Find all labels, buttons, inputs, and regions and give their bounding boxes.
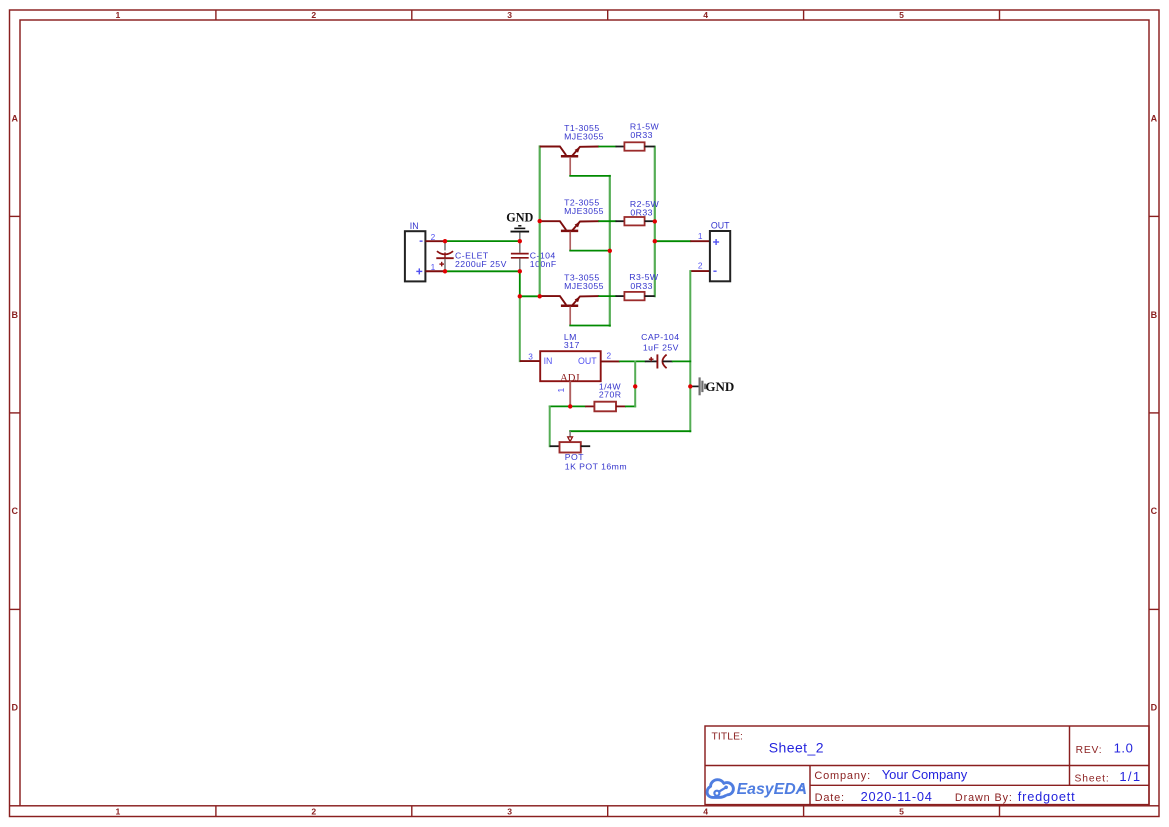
svg-text:2: 2 bbox=[431, 232, 436, 242]
svg-text:1K POT 16mm: 1K POT 16mm bbox=[565, 461, 627, 471]
svg-text:3: 3 bbox=[507, 10, 512, 20]
svg-text:100nF: 100nF bbox=[530, 259, 557, 269]
svg-text:C: C bbox=[1151, 506, 1158, 516]
svg-text:2: 2 bbox=[606, 351, 611, 361]
svg-text:5: 5 bbox=[899, 10, 904, 20]
svg-text:ADJ: ADJ bbox=[560, 373, 579, 384]
svg-text:0R33: 0R33 bbox=[630, 130, 653, 140]
svg-text:3: 3 bbox=[507, 806, 512, 816]
svg-text:4: 4 bbox=[703, 806, 708, 816]
svg-text:GND: GND bbox=[506, 211, 533, 225]
svg-text:D: D bbox=[11, 703, 18, 713]
svg-text:0R33: 0R33 bbox=[630, 281, 653, 291]
svg-text:MJE3055: MJE3055 bbox=[564, 206, 604, 216]
svg-text:2: 2 bbox=[311, 10, 316, 20]
svg-text:A: A bbox=[1151, 113, 1158, 123]
svg-text:MJE3055: MJE3055 bbox=[564, 281, 604, 291]
svg-text:OUT: OUT bbox=[711, 221, 730, 231]
svg-text:C: C bbox=[11, 506, 18, 516]
svg-text:A: A bbox=[11, 113, 18, 123]
svg-text:GND: GND bbox=[705, 379, 734, 394]
svg-text:3: 3 bbox=[528, 351, 533, 361]
svg-text:1: 1 bbox=[116, 806, 121, 816]
svg-text:D: D bbox=[1151, 703, 1158, 713]
svg-text:IN: IN bbox=[544, 356, 553, 366]
svg-text:1uF 25V: 1uF 25V bbox=[643, 343, 679, 353]
svg-text:IN: IN bbox=[410, 221, 419, 231]
svg-text:317: 317 bbox=[564, 340, 580, 350]
svg-text:2020-11-04: 2020-11-04 bbox=[861, 789, 933, 804]
svg-text:Your Company: Your Company bbox=[882, 767, 968, 782]
svg-text:B: B bbox=[1151, 310, 1158, 320]
svg-text:B: B bbox=[11, 310, 18, 320]
svg-text:5: 5 bbox=[899, 806, 904, 816]
svg-text:CAP-104: CAP-104 bbox=[641, 332, 679, 342]
svg-text:OUT: OUT bbox=[578, 356, 597, 366]
svg-text:Sheet:: Sheet: bbox=[1075, 773, 1110, 784]
svg-text:270R: 270R bbox=[599, 389, 622, 399]
svg-text:1: 1 bbox=[698, 231, 703, 241]
svg-text:Company:: Company: bbox=[814, 770, 871, 782]
svg-text:2: 2 bbox=[311, 806, 316, 816]
svg-text:1: 1 bbox=[431, 262, 436, 272]
svg-text:Drawn By:: Drawn By: bbox=[955, 792, 1013, 804]
svg-text:Date:: Date: bbox=[815, 792, 845, 804]
svg-text:1.0: 1.0 bbox=[1114, 741, 1134, 756]
svg-text:1/1: 1/1 bbox=[1119, 769, 1141, 784]
svg-text:MJE3055: MJE3055 bbox=[564, 132, 604, 142]
svg-text:4: 4 bbox=[703, 10, 708, 20]
svg-text:2200uF 25V: 2200uF 25V bbox=[455, 259, 507, 269]
svg-text:TITLE:: TITLE: bbox=[712, 731, 744, 742]
svg-text:REV:: REV: bbox=[1076, 745, 1103, 756]
svg-text:1: 1 bbox=[116, 10, 121, 20]
svg-text:0R33: 0R33 bbox=[630, 208, 653, 218]
svg-text:Sheet_2: Sheet_2 bbox=[769, 740, 824, 756]
svg-text:fredgoett: fredgoett bbox=[1018, 789, 1076, 804]
svg-text:EasyEDA: EasyEDA bbox=[737, 781, 808, 798]
svg-text:2: 2 bbox=[698, 261, 703, 271]
svg-text:1: 1 bbox=[556, 388, 566, 393]
